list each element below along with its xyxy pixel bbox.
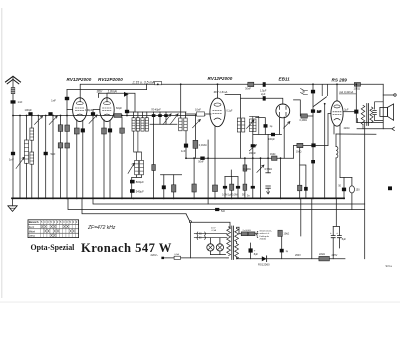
coil IF1 lower w2 [140, 160, 144, 175]
coil IF1 w4 [145, 118, 148, 131]
arrow marker on L3 [124, 92, 129, 97]
svg-text:0,2MΩ: 0,2MΩ [243, 168, 251, 171]
wire column x20 [19, 116, 21, 199]
resistor box column x60.5 b [58, 143, 63, 148]
capacitor 2uF tone [354, 110, 358, 114]
tube V2 RV12P2000 [100, 98, 114, 122]
svg-text:200pF: 200pF [249, 152, 256, 155]
resistor cathode pot [351, 178, 353, 210]
resistor 1M coupling [297, 143, 303, 147]
output transformer core [367, 104, 369, 126]
trimmer arrow IF1 lower [128, 163, 134, 173]
wire trimmer columns [154, 112, 166, 124]
resistor row d lower [243, 184, 247, 190]
svg-text:Lang: Lang [29, 234, 35, 238]
capacitor electrolytic 8uF b [338, 227, 340, 249]
wire column x122 [121, 117, 123, 198]
svg-text:60pF: 60pF [116, 106, 122, 110]
capacitor 5pF top [311, 90, 315, 94]
svg-text:22kΩ: 22kΩ [319, 253, 325, 256]
wire anode V1 [79, 84, 81, 101]
wire column x252.8 [252, 132, 254, 199]
wire column x153.6 to ground [153, 124, 155, 198]
titles [9, 76, 392, 268]
tube V5 RS289 output [331, 101, 343, 126]
capacitor 5nF column x13 [11, 152, 15, 155]
pilot lamp La2 [219, 238, 221, 244]
svg-text:260V: 260V [295, 254, 301, 257]
speaker field blob [388, 186, 392, 190]
wire column x60.5 [60, 116, 62, 199]
wire column x45.7 [45, 116, 47, 199]
trimmer arrow b [170, 114, 178, 125]
pickup terminals TA [301, 89, 308, 95]
band switch arrow S1a [35, 116, 43, 125]
wire column x300.8 [300, 198, 302, 236]
capacitor cathode 50uF [343, 178, 345, 199]
wire cathode V2 legs [104, 120, 110, 199]
wire speaker and secondary returns [357, 119, 383, 123]
resistor cathode V1 [74, 128, 79, 134]
svg-text:St 6 a: St 6 a [386, 265, 393, 268]
coil L3a [30, 128, 34, 140]
coil L3b [30, 152, 34, 164]
tube V4 EB11 diode [276, 104, 290, 118]
svg-text:100pF: 100pF [25, 108, 33, 112]
HT output line [267, 258, 345, 260]
wire IF2 top [185, 112, 187, 118]
wire column x13 [12, 116, 14, 199]
capacitor electrolytic 800uF [130, 180, 135, 184]
wire column x53 [52, 116, 54, 199]
svg-text:2x 600Ω: 2x 600Ω [243, 230, 252, 232]
switch contact stubs [322, 84, 327, 95]
coil L2 (long wave) [25, 140, 29, 163]
trimmer arrow IF2 [193, 119, 201, 127]
resistor cathode V3 [213, 185, 218, 192]
wire B+ drop to IF2 [180, 84, 182, 118]
capacitor pad a [152, 114, 156, 117]
svg-text:0: 0 [73, 221, 75, 224]
svg-text:100Ω: 100Ω [354, 87, 361, 91]
wire anode to output transformer [343, 111, 356, 113]
svg-text:420Ω: 420Ω [344, 127, 350, 130]
capacitor C1 1nF [11, 100, 16, 103]
svg-text:8µF: 8µF [342, 238, 347, 241]
svg-text:5nF: 5nF [51, 152, 56, 156]
svg-text:1nF: 1nF [317, 111, 322, 114]
resistor 2k series in bus [114, 114, 122, 118]
coil oscillator secondary w2 [253, 119, 256, 132]
tube V1 RV12P2000 [73, 98, 87, 122]
mains input line 220V [163, 257, 227, 259]
svg-text:5: 5 [41, 221, 43, 224]
wire cathode V1 legs [77, 120, 83, 199]
resistor mains b [248, 232, 255, 236]
wire cathode V3 [214, 127, 216, 199]
wire anode V2 [106, 93, 108, 101]
capacitor cathode V2 [108, 128, 112, 132]
capacitor at x305.9 [304, 187, 308, 191]
capacitor 50nF on detector line [200, 157, 204, 160]
heater line [68, 198, 365, 209]
svg-text:1µ: 1µ [286, 251, 289, 253]
svg-text:5: 5 [51, 221, 53, 224]
svg-text:1MΩ: 1MΩ [270, 153, 275, 156]
mains switch on pot [314, 97, 327, 107]
wire grid V2 [93, 109, 100, 111]
resistor 0.1M [193, 140, 198, 148]
capacitor 200pF [251, 144, 255, 147]
capacitor 1uF detector [264, 124, 268, 127]
capacitor 100pF on bus b [48, 112, 52, 115]
capacitor 1.5uF series in rail [263, 82, 266, 87]
coil oscillator w2 [242, 118, 245, 132]
svg-text:0: 0 [66, 221, 68, 224]
svg-text:0: 0 [47, 221, 49, 224]
svg-text:2µF: 2µF [261, 93, 266, 96]
wire IF1 tops [134, 112, 147, 118]
resistor in detector line 1M [272, 156, 278, 160]
wire measuring line L3 [99, 93, 136, 112]
rectifier RG12D60 [262, 256, 267, 261]
svg-text:50nF: 50nF [198, 161, 204, 164]
capacitor pad c [164, 114, 168, 117]
capacitor box on rail [155, 81, 162, 84]
wire column x305.9 [300, 165, 306, 198]
switch arrow at x93 [89, 115, 97, 124]
svg-text:Kronach 547 W: Kronach 547 W [81, 241, 172, 255]
voltage selector row a [194, 233, 227, 235]
svg-text:100pF: 100pF [268, 138, 275, 141]
svg-text:+: + [336, 231, 338, 235]
svg-text:widerst. d.: widerst. d. [260, 232, 270, 235]
capacitor 60pF [126, 93, 128, 115]
capacitor cathode V1 [81, 128, 85, 132]
wire IF1 bottoms to ground [132, 175, 142, 178]
trimmer arrow left coil [16, 157, 24, 168]
scan edge artifact left [1, 8, 2, 298]
capacitor 2uF series in feed [263, 96, 266, 100]
table texts [29, 220, 78, 238]
svg-text:0,1A: 0,1A [212, 229, 217, 232]
wire IF2 bottom [185, 131, 187, 158]
voltage selector row b [194, 237, 227, 239]
svg-text:Feldspule: Feldspule [260, 236, 270, 238]
svg-text:ZF=472 kHz: ZF=472 kHz [87, 225, 116, 231]
resistor box column x67 a [65, 125, 70, 131]
coil oscillator secondary w1 [250, 119, 253, 132]
resistor at x194.1 [192, 184, 196, 192]
wire grid drop x208.1 [207, 140, 209, 204]
svg-text:RV12P2000: RV12P2000 [67, 77, 92, 82]
wire coupling line to output grid [293, 146, 328, 159]
feedback line [336, 133, 376, 135]
wire cap joins [333, 198, 339, 226]
resistor bleeder [278, 230, 282, 236]
output transformer primary [361, 105, 365, 124]
switch output line [191, 222, 230, 227]
mains transformer secondary [235, 229, 239, 242]
capacitor 1nF [184, 144, 188, 148]
svg-text:+: + [254, 249, 256, 253]
capacitor plates at x268 [266, 186, 271, 188]
resistor at x299.7 [298, 185, 302, 191]
coil IF2 w1 [179, 118, 182, 131]
svg-text:220V~: 220V~ [151, 253, 159, 257]
rail R2 (anode supply tubes 1-2) [67, 89, 147, 91]
choke coil 3 bumps [335, 134, 337, 147]
table X marks [41, 225, 75, 237]
svg-text:215V: 215V [332, 254, 338, 257]
wire EB11 pin legs [280, 117, 285, 158]
svg-text:1nF: 1nF [181, 149, 186, 153]
capacitor 5nF at x252.8 [251, 186, 255, 189]
wire external connection [383, 94, 393, 96]
wire column x31.8 [31, 116, 33, 199]
svg-text:EB11: EB11 [279, 77, 291, 82]
wire volume column x313 [312, 84, 314, 198]
wire cathode V5 [334, 125, 340, 177]
svg-text:800µF: 800µF [136, 180, 144, 184]
svg-text:36V 1,6mA: 36V 1,6mA [214, 90, 228, 94]
svg-text:2000Ω: 2000Ω [260, 239, 267, 241]
antenna [6, 76, 21, 82]
wire column x163.8 [163, 175, 165, 199]
AVC line [93, 198, 365, 204]
wire column x195.4 [194, 114, 196, 158]
wire oscillator coil bottom [240, 132, 242, 158]
wire diode feed line [241, 98, 283, 104]
cathode network connector [340, 177, 352, 179]
detector mid line [253, 133, 282, 135]
small component labels [9, 87, 392, 268]
trimmer arrow oscillator [247, 120, 255, 128]
trimmer block connector [150, 123, 177, 125]
wire anode V5 [336, 84, 338, 101]
capacitor row a [224, 177, 226, 199]
resistor box column x122 [120, 128, 125, 133]
svg-text:0: 0 [76, 221, 78, 224]
svg-text:1,8mA: 1,8mA [108, 89, 117, 93]
diode load arrow [284, 122, 291, 129]
resistor mains a [241, 232, 248, 236]
wire switch drop to mains [189, 223, 191, 258]
capacitor 100pF coupling V2 [91, 112, 95, 115]
tube V3 RV12P2000 [210, 98, 225, 127]
coil IF1 lower w1 [135, 160, 139, 175]
capacitor 10nF grid V3 [197, 112, 205, 116]
output transformer secondary [370, 107, 373, 122]
resistor box column x67 b [65, 143, 70, 148]
capacitor 100pF on bus a [28, 112, 32, 115]
capacitor loop at speaker [375, 102, 384, 121]
svg-text:5nF: 5nF [221, 210, 226, 213]
wire column x173.7 [173, 175, 175, 199]
svg-text:5n: 5n [247, 195, 250, 198]
svg-text:0,5MΩ: 0,5MΩ [265, 168, 273, 171]
capacitor at x163.8 [162, 185, 166, 189]
svg-text:0,1µF: 0,1µF [227, 111, 234, 113]
coil IF1 w2 [136, 118, 139, 131]
TA input feed [294, 100, 301, 116]
terminal bar [266, 172, 271, 174]
svg-text:RS 289: RS 289 [332, 77, 348, 82]
svg-text:0: 0 [44, 221, 46, 224]
trimmer arrow 200pF [249, 145, 256, 151]
speaker [380, 107, 388, 116]
svg-text:0: 0 [57, 221, 59, 224]
rail R1 (B+ top rail) [81, 83, 384, 85]
wire transformer bottom [362, 125, 364, 129]
svg-text:10nF: 10nF [195, 107, 201, 111]
svg-text:+: + [330, 231, 332, 235]
bottom row connector [225, 170, 238, 177]
svg-text:0,3M: 0,3M [232, 193, 237, 196]
svg-text:5: 5 [70, 221, 72, 224]
wire stub to 0.2M [303, 115, 313, 117]
capacitor 1uF at x281.7 [281, 236, 283, 258]
coil IF2 w2 [184, 118, 187, 131]
svg-text:1MΩ: 1MΩ [296, 151, 301, 154]
wire column x194.1 lower [193, 158, 195, 198]
capacitor row c [237, 177, 239, 199]
svg-text:2,15 u. 3,5 mA: 2,15 u. 3,5 mA [132, 80, 156, 84]
svg-text:1nF: 1nF [51, 99, 56, 103]
wire grid V5 [328, 114, 331, 146]
svg-text:5: 5 [60, 221, 62, 224]
svg-text:0: 0 [63, 221, 65, 224]
antenna coil L1 [11, 88, 15, 94]
svg-text:Kurz: Kurz [29, 225, 35, 229]
capacitor on detector at x313 [311, 160, 315, 163]
wire column x26.5 [26, 116, 28, 199]
svg-text:Gleichstrom-: Gleichstrom- [260, 230, 273, 233]
wire secondary drop [364, 123, 366, 259]
capacitor electrolytic 8uF a [332, 227, 334, 259]
IF transformer 1 top connector [127, 111, 186, 113]
capacitor 5nF on heater line [215, 208, 219, 211]
wire antenna lead [12, 76, 14, 115]
svg-text:0,5A: 0,5A [174, 253, 179, 256]
resistor 0.2M [301, 114, 307, 118]
fuse 0,5A [174, 256, 180, 259]
coil IF1 w1 [132, 118, 135, 131]
band switch arrow S1b [49, 116, 57, 125]
lower cross connector [161, 174, 182, 176]
trimmer arrow a [163, 114, 171, 125]
svg-text:RV12P2000: RV12P2000 [208, 76, 233, 81]
capacitor 1nF grid tube1 [65, 97, 69, 100]
svg-text:2µF: 2µF [344, 109, 349, 112]
wire osc secondary loop [250, 116, 259, 134]
wire B+ drop x356.3 [355, 84, 357, 122]
resistor at x173.7 [172, 185, 176, 192]
pilot lamp La1 [209, 238, 211, 244]
capacitor electrolytic 540uF [130, 189, 135, 193]
capacitor 5nF column x45.7 [44, 152, 48, 155]
mains transformer primary [227, 227, 231, 256]
switch blade mains [186, 214, 190, 221]
svg-text:Opta-Spezial: Opta-Spezial [31, 243, 76, 252]
wire grid V1 [67, 109, 73, 111]
bracket texts power supply [256, 230, 272, 241]
capacitor 5nF coupling [311, 143, 315, 147]
wire column x311.8 [311, 198, 313, 258]
capacitor C 30nF on rail [248, 82, 254, 86]
svg-text:1µ: 1µ [270, 125, 273, 128]
wire IF1 mid connectors [134, 131, 142, 160]
wire jog [146, 84, 148, 89]
svg-text:30nF: 30nF [245, 87, 251, 91]
wire column x93 [92, 110, 94, 199]
wire below detector line [280, 158, 282, 198]
wire x268.1 lower column [267, 134, 269, 172]
ground bus GB [12, 197, 344, 199]
capacitor electrolytic 8uF first [250, 243, 252, 259]
svg-text:RG12D60: RG12D60 [258, 262, 270, 266]
wire column x299.7 [299, 148, 301, 199]
mains transformer core [232, 226, 234, 260]
resistor row b [231, 177, 233, 199]
wire lamp bottoms [210, 251, 225, 255]
svg-text:540µF: 540µF [136, 190, 144, 194]
resistor on rail 100ohm [354, 83, 360, 87]
ground symbol [12, 198, 14, 206]
svg-text:Mittel: Mittel [29, 229, 36, 233]
mains switch line [82, 198, 186, 214]
capacitor at x313 mid [311, 109, 315, 112]
svg-text:1nF: 1nF [18, 100, 23, 104]
resistor row d upper [244, 158, 246, 198]
wire oscillator anode [225, 94, 240, 118]
svg-text:5p: 5p [302, 90, 305, 93]
detector line DL [186, 157, 293, 159]
coil IF1 w3 [141, 118, 144, 131]
svg-text:0,2MΩ: 0,2MΩ [300, 119, 308, 122]
svg-text:RV12P2000: RV12P2000 [98, 77, 123, 82]
volume pot arrow 0.5M [257, 165, 264, 173]
wire anode V3 [217, 84, 219, 98]
wire column x324.7 [324, 104, 326, 198]
svg-text:50: 50 [338, 184, 341, 187]
main tuning bus MB [13, 115, 205, 117]
capacitor 100pF detector [271, 133, 275, 136]
svg-text:70-45pF: 70-45pF [151, 108, 161, 112]
wire grid line to V3 [186, 113, 211, 115]
svg-text:1nF: 1nF [9, 158, 14, 162]
wire column x38.3 [37, 116, 39, 199]
band selection table [28, 220, 79, 238]
svg-text:8µF: 8µF [254, 253, 259, 256]
svg-text:100pF: 100pF [85, 108, 93, 112]
svg-text:10kΩ: 10kΩ [284, 232, 290, 235]
svg-text:0: 0 [54, 221, 56, 224]
resistor 22k [319, 256, 330, 261]
detector loop top [256, 118, 266, 135]
capacitor pad b [158, 114, 162, 117]
svg-text:0,1MΩ: 0,1MΩ [199, 143, 207, 147]
wire resistor row [239, 227, 258, 234]
scan fold line [0, 301, 400, 304]
svg-text:150: 150 [356, 189, 361, 192]
svg-text:Bereich: Bereich [29, 220, 39, 224]
svg-text:36V: 36V [97, 89, 104, 93]
resistor box column x60.5 a [58, 125, 63, 132]
wire column x67 [66, 90, 68, 199]
svg-text:Ia1 0,43mA: Ia1 0,43mA [340, 90, 354, 94]
wire pot column [260, 158, 262, 198]
